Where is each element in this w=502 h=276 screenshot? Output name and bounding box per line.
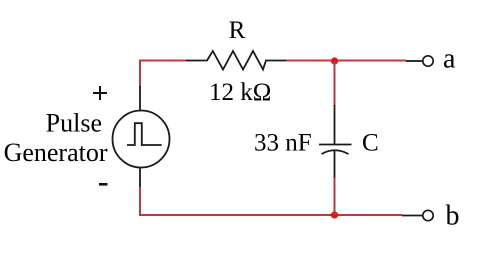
wire: left vertical red segment (bottom) <box>139 187 141 216</box>
svg-text:a: a <box>443 44 456 75</box>
junction dot: bottom node <box>331 211 338 218</box>
svg-text:b: b <box>446 201 460 232</box>
svg-text:Pulse: Pulse <box>46 109 102 138</box>
junction dot: top node <box>331 57 338 64</box>
wire: capacitor branch black lead (top) <box>334 105 336 145</box>
svg-text:R: R <box>229 17 246 44</box>
terminal b (open circle) <box>423 210 433 220</box>
source name label: Pulse Generator <box>4 109 108 168</box>
pulse generator source V1 <box>113 111 170 168</box>
resistor R <box>186 51 286 70</box>
wire: black lead to terminal a <box>406 60 422 62</box>
wire: left vertical black lead into source top <box>139 86 141 111</box>
wire: bottom horizontal red segment <box>139 214 402 216</box>
terminal a (open circle) <box>423 56 433 66</box>
wire: top-right horizontal red segment <box>286 60 406 62</box>
polarity label + <box>93 86 107 100</box>
wire: capacitor branch black lead (bottom) <box>334 151 336 180</box>
wire: left vertical black lead from source bottom <box>139 167 141 188</box>
wire: capacitor branch red segment (bottom) <box>334 178 336 215</box>
wire: top-left horizontal red segment <box>139 60 186 62</box>
polarity label - <box>99 183 108 186</box>
wire: capacitor branch red segment (top) <box>334 61 336 106</box>
svg-text:33 nF: 33 nF <box>254 129 312 156</box>
svg-text:12 kΩ: 12 kΩ <box>209 79 271 106</box>
wire: left vertical red segment (top) <box>139 60 141 88</box>
wire: black lead to terminal b <box>402 215 422 217</box>
capacitor C <box>319 145 352 155</box>
svg-text:C: C <box>362 130 379 157</box>
svg-text:Generator: Generator <box>4 138 108 167</box>
